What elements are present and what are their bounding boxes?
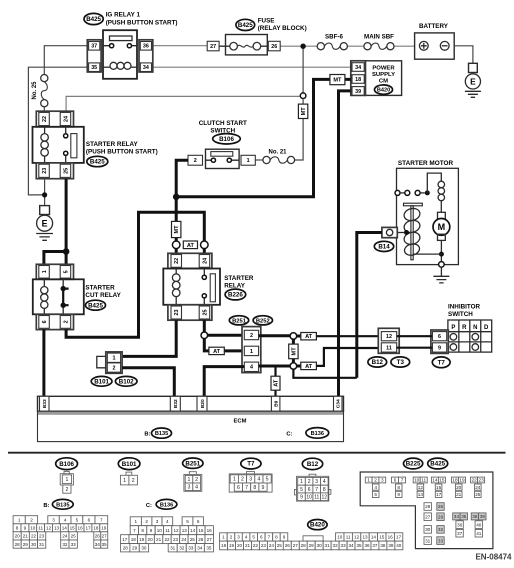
- oval T7: [432, 357, 450, 368]
- svg-text:31: 31: [170, 546, 176, 551]
- svg-text:7: 7: [268, 535, 271, 540]
- wire junction through MT to circle above pin22: [175, 197, 178, 241]
- wire circles down to relay pins 22/24: [176, 249, 204, 254]
- svg-text:33: 33: [71, 542, 77, 547]
- svg-text:B425: B425: [90, 159, 105, 166]
- pin 26 of fuse block: [268, 41, 280, 51]
- wire fuse No.25 to starter relay pin22: [43, 107, 45, 111]
- connector B12 pinout: [294, 474, 331, 501]
- svg-text:B101: B101: [94, 378, 109, 385]
- svg-text:20: 20: [456, 485, 462, 490]
- ground E (battery): [465, 63, 481, 97]
- svg-text:3: 3: [315, 479, 318, 485]
- node case terminal circle: [439, 262, 445, 268]
- svg-text:24: 24: [475, 485, 481, 490]
- svg-text:8: 8: [141, 528, 144, 533]
- wire circle down through AT to B251 pin1: [204, 339, 244, 351]
- svg-text:41: 41: [476, 531, 482, 536]
- svg-text:24: 24: [181, 537, 187, 542]
- pin bracket 23/25 of starter relay PBS: [36, 163, 73, 179]
- wire power CM pin18 via MT to clutch junction: [176, 79, 351, 196]
- label AT right of lower circle: [297, 365, 301, 368]
- svg-text:25: 25: [190, 537, 196, 542]
- oval B251 (pinout): [183, 458, 203, 468]
- svg-text:38: 38: [380, 543, 386, 548]
- svg-text:B226: B226: [228, 292, 243, 299]
- svg-text:25: 25: [63, 168, 69, 174]
- svg-text:P: P: [451, 325, 455, 331]
- svg-text:28: 28: [123, 546, 129, 551]
- relay box starter relay B226: [163, 269, 220, 305]
- svg-text:8: 8: [323, 487, 326, 493]
- svg-text:2: 2: [241, 477, 244, 483]
- svg-text:E: E: [42, 219, 48, 229]
- ECM pin row: [38, 396, 344, 411]
- fuse SBF-6: [317, 34, 347, 50]
- svg-text:34: 34: [348, 543, 354, 548]
- svg-text:T7: T7: [438, 359, 446, 366]
- svg-text:5: 5: [266, 477, 269, 483]
- svg-text:30: 30: [425, 527, 431, 532]
- connector B101/B102: [97, 352, 122, 373]
- svg-text:MT: MT: [301, 107, 307, 116]
- svg-text:20: 20: [15, 534, 21, 539]
- svg-text:39: 39: [355, 89, 361, 95]
- svg-text:B225: B225: [406, 461, 421, 468]
- wire solenoid bottom to motor negative: [412, 253, 441, 255]
- svg-text:2: 2: [195, 477, 198, 483]
- svg-text:39: 39: [388, 543, 394, 548]
- wire IG relay pin36 to fuse block pin27: [153, 45, 207, 47]
- pin bracket 22/24 of starter relay B226: [168, 253, 212, 268]
- svg-text:C34: C34: [336, 399, 342, 408]
- connector B136 pinout grid: [121, 517, 214, 552]
- svg-text:2: 2: [145, 519, 148, 524]
- svg-text:7: 7: [245, 485, 248, 491]
- svg-text:33: 33: [438, 538, 444, 543]
- svg-text:4: 4: [250, 365, 253, 371]
- svg-text:26: 26: [285, 543, 291, 548]
- svg-text:BATTERY: BATTERY: [419, 23, 449, 30]
- svg-text:B135: B135: [155, 431, 168, 437]
- solenoid plunger T-bar: [404, 203, 423, 206]
- svg-text:37: 37: [91, 44, 97, 50]
- wire IG relay pin35 to left ground run: [28, 67, 87, 195]
- ground (starter motor): [433, 267, 449, 283]
- svg-text:12: 12: [322, 494, 328, 500]
- wire clutch switch pin1 to fuse No.21: [255, 159, 262, 161]
- oval T3: [391, 357, 410, 367]
- svg-text:20: 20: [237, 543, 243, 548]
- svg-text:31: 31: [325, 543, 331, 548]
- wire lower AT jog up to connector 11: [316, 348, 381, 366]
- ovals B225 B425 (pinout): [404, 458, 423, 469]
- wire power CM pin39 down to ECM C34: [339, 91, 351, 396]
- svg-text:22: 22: [471, 478, 477, 483]
- connector B251/B252 cells: [242, 327, 261, 373]
- node B14 tap dot on solenoid: [404, 230, 409, 235]
- node circle (upper, right of B251): [290, 333, 297, 340]
- wire cut relay pin6 to ECM B33: [42, 329, 45, 396]
- svg-text:B136: B136: [160, 502, 173, 508]
- svg-text:13: 13: [362, 535, 368, 540]
- svg-text:5: 5: [76, 518, 79, 523]
- svg-text:35: 35: [206, 546, 212, 551]
- svg-text:1: 1: [188, 477, 191, 483]
- connector B135 pinout grid: [13, 516, 108, 549]
- svg-text:B101: B101: [122, 461, 137, 468]
- svg-text:12: 12: [386, 334, 392, 340]
- svg-text:40: 40: [396, 543, 402, 548]
- svg-text:38: 38: [472, 514, 478, 519]
- svg-text:3: 3: [188, 484, 191, 490]
- svg-text:34: 34: [197, 546, 203, 551]
- svg-text:9: 9: [283, 535, 286, 540]
- svg-text:2: 2: [250, 333, 253, 339]
- svg-text:7: 7: [100, 518, 103, 523]
- svg-text:9: 9: [262, 485, 265, 491]
- oval T7 (pinout): [241, 458, 261, 469]
- svg-text:16: 16: [436, 485, 442, 490]
- svg-text:19: 19: [459, 478, 465, 483]
- svg-text:13: 13: [182, 528, 188, 533]
- svg-text:(RELAY BLOCK): (RELAY BLOCK): [258, 25, 307, 32]
- svg-text:B425: B425: [238, 22, 253, 29]
- svg-text:34: 34: [454, 514, 460, 519]
- power supply CM B420: [365, 61, 401, 96]
- svg-text:23: 23: [478, 478, 484, 483]
- svg-text:24: 24: [269, 543, 275, 548]
- svg-text:25: 25: [277, 543, 283, 548]
- svg-text:3: 3: [237, 535, 240, 540]
- svg-text:1: 1: [233, 477, 236, 483]
- connector B101 pinout: [120, 472, 137, 485]
- fuse No.21: [263, 156, 295, 163]
- svg-text:15: 15: [439, 478, 445, 483]
- svg-text:13: 13: [418, 492, 424, 497]
- svg-text:1: 1: [250, 349, 253, 355]
- pin 2 of clutch switch: [188, 155, 203, 165]
- coil of IG relay 1: [103, 62, 137, 69]
- svg-text:FUSE: FUSE: [258, 17, 275, 24]
- fuse (relay block) B425 label: [236, 17, 307, 32]
- svg-text:33: 33: [341, 543, 347, 548]
- svg-text:2: 2: [30, 518, 33, 523]
- svg-text:B251: B251: [185, 460, 200, 467]
- wire 12 to 6: [397, 335, 433, 337]
- svg-text:22: 22: [164, 537, 170, 542]
- svg-text:29: 29: [309, 543, 315, 548]
- svg-text:4: 4: [323, 479, 326, 485]
- svg-text:1: 1: [123, 478, 126, 484]
- svg-text:B420: B420: [377, 88, 390, 94]
- svg-text:B252: B252: [256, 318, 270, 324]
- svg-text:1: 1: [222, 535, 225, 540]
- svg-text:STARTER: STARTER: [85, 284, 115, 291]
- wire upper AT to connector 12: [316, 335, 381, 337]
- svg-text:6: 6: [42, 320, 48, 323]
- svg-text:AT: AT: [213, 349, 221, 355]
- svg-text:4: 4: [374, 485, 377, 490]
- label MT (connector on MT line): [298, 104, 307, 118]
- label AT left of B251 pin1: [209, 347, 224, 355]
- svg-text:22: 22: [31, 534, 37, 539]
- battery: [415, 23, 455, 59]
- wire MT circle to fuse No.21: [302, 99, 304, 105]
- svg-text:11: 11: [421, 478, 426, 483]
- svg-text:12: 12: [46, 526, 52, 531]
- svg-text:6: 6: [237, 485, 240, 491]
- svg-text:22: 22: [174, 258, 180, 264]
- svg-text:SBF-6: SBF-6: [325, 34, 343, 41]
- node MT inline connector circle: [300, 93, 306, 99]
- svg-text:16: 16: [207, 528, 213, 533]
- svg-text:STARTER MOTOR: STARTER MOTOR: [398, 160, 454, 167]
- svg-text:8: 8: [253, 485, 256, 491]
- svg-text:23: 23: [39, 534, 45, 539]
- svg-text:2: 2: [230, 535, 233, 540]
- svg-text:B425: B425: [430, 461, 445, 468]
- connector B225/B425 pinout outline: [360, 472, 493, 549]
- pin B33: [40, 396, 50, 411]
- label B: B135 (pinout): [43, 499, 73, 509]
- svg-text:17: 17: [396, 535, 402, 540]
- svg-text:5: 5: [252, 535, 255, 540]
- node junction on main bus: [300, 44, 305, 49]
- svg-text:No. 25: No. 25: [32, 81, 38, 100]
- oval B420 (pinout): [308, 520, 327, 530]
- svg-text:B251: B251: [232, 318, 247, 324]
- svg-text:CLUTCH START: CLUTCH START: [199, 120, 247, 127]
- svg-text:B9: B9: [274, 400, 280, 407]
- svg-text:28: 28: [301, 543, 307, 548]
- svg-text:5: 5: [374, 492, 377, 497]
- svg-text:12: 12: [418, 485, 424, 490]
- node clutch/pin18 junction: [173, 194, 180, 201]
- svg-text:37: 37: [457, 531, 463, 536]
- pin B32: [170, 396, 180, 411]
- node circle (lower, right of B251): [290, 363, 297, 370]
- svg-text:9: 9: [300, 494, 303, 500]
- svg-text:19: 19: [101, 526, 107, 531]
- wire 11 to 9: [397, 347, 433, 349]
- svg-text:1: 1: [367, 478, 370, 483]
- svg-text:8: 8: [275, 535, 278, 540]
- svg-text:32: 32: [179, 546, 185, 551]
- oval B106 (pinout): [56, 458, 78, 470]
- fuse No. 25: [41, 75, 48, 107]
- wire clutch pin2 to junction: [176, 160, 188, 197]
- svg-text:AT: AT: [187, 243, 195, 249]
- op-amp none; component IG RELAY 1 (PUSH BUTTON START) B425: [84, 12, 178, 27]
- wire AT branch down to ECM B9: [274, 366, 276, 396]
- svg-text:1: 1: [66, 477, 69, 483]
- svg-text:2: 2: [374, 478, 377, 483]
- svg-text:35: 35: [91, 65, 97, 71]
- svg-text:23: 23: [261, 543, 267, 548]
- svg-text:24: 24: [62, 534, 68, 539]
- svg-text:6: 6: [260, 535, 263, 540]
- svg-text:14: 14: [190, 528, 196, 533]
- svg-text:10: 10: [30, 526, 36, 531]
- svg-text:9: 9: [438, 345, 441, 351]
- svg-text:24: 24: [202, 258, 208, 264]
- svg-text:B:: B:: [144, 432, 150, 438]
- svg-text:STARTER RELAY: STARTER RELAY: [86, 141, 139, 148]
- svg-text:10: 10: [306, 494, 312, 500]
- svg-text:6: 6: [308, 487, 311, 493]
- svg-text:8: 8: [397, 485, 400, 490]
- svg-text:B:: B:: [43, 503, 49, 509]
- fuse MAIN SBF: [364, 34, 394, 50]
- label AT right of upper circle: [297, 335, 301, 338]
- inhibitor switch grid: [448, 320, 492, 352]
- svg-text:25: 25: [475, 492, 481, 497]
- label AT between circles: [183, 241, 197, 249]
- svg-text:19: 19: [139, 537, 145, 542]
- wire dot up over to pull-in coil: [427, 173, 441, 193]
- svg-text:B33: B33: [42, 399, 48, 408]
- pin column 36/34 of IG relay 1: [139, 40, 153, 72]
- svg-text:30: 30: [141, 546, 147, 551]
- node junction above starter cut relay: [63, 248, 70, 255]
- svg-text:29: 29: [132, 546, 138, 551]
- svg-text:37: 37: [372, 543, 378, 548]
- svg-text:4: 4: [257, 477, 260, 483]
- svg-text:32: 32: [438, 527, 444, 532]
- svg-text:B32: B32: [173, 399, 179, 408]
- connector B420 pinout: [220, 533, 403, 550]
- svg-text:D: D: [484, 325, 489, 331]
- svg-text:36: 36: [364, 543, 370, 548]
- svg-text:21: 21: [156, 537, 162, 542]
- oval B14: [374, 241, 393, 251]
- svg-text:11: 11: [386, 345, 392, 351]
- wire B251 pin4 right to lower circle: [259, 365, 291, 368]
- svg-text:CM: CM: [379, 78, 388, 84]
- svg-text:9: 9: [150, 528, 153, 533]
- node circle above B251: [201, 332, 208, 339]
- wire relay pin23 to B101 pin1: [122, 320, 176, 356]
- svg-text:B420: B420: [310, 522, 325, 529]
- svg-text:33: 33: [188, 546, 194, 551]
- svg-text:7: 7: [401, 478, 404, 483]
- svg-text:ECM: ECM: [234, 418, 247, 424]
- svg-text:STARTER: STARTER: [224, 275, 254, 282]
- svg-text:4: 4: [245, 535, 248, 540]
- svg-text:21: 21: [23, 534, 29, 539]
- wire fuse block pin26 to battery plus: [280, 45, 317, 47]
- svg-text:3: 3: [156, 519, 159, 524]
- svg-text:30: 30: [31, 542, 37, 547]
- svg-text:14: 14: [432, 478, 438, 483]
- wire IG relay pin24 run to MT connector circle: [66, 96, 300, 111]
- oval B101 (pinout): [118, 458, 140, 470]
- connector B14: [382, 227, 404, 237]
- svg-text:27: 27: [425, 514, 431, 519]
- svg-text:2: 2: [308, 479, 311, 485]
- svg-text:16: 16: [78, 526, 84, 531]
- wire junction to cut relay pins 1 and 5: [44, 252, 66, 265]
- wire pin25 thick down to starter cut relay: [65, 179, 68, 252]
- connector B106 pinout: [60, 472, 73, 494]
- svg-text:MT: MT: [333, 78, 342, 84]
- svg-text:C:: C:: [286, 432, 292, 438]
- solenoid plunger stem and spring: [403, 206, 421, 260]
- oval B102: [115, 376, 137, 386]
- svg-text:31: 31: [39, 542, 45, 547]
- svg-text:32: 32: [62, 542, 68, 547]
- svg-text:18: 18: [131, 537, 137, 542]
- connector 6/9 of inhibitor switch: [431, 330, 448, 353]
- svg-text:1: 1: [300, 479, 303, 485]
- svg-text:27: 27: [210, 44, 216, 50]
- svg-text:R: R: [462, 325, 467, 331]
- svg-text:AT: AT: [305, 364, 313, 370]
- svg-text:5: 5: [63, 270, 69, 273]
- svg-text:T7: T7: [247, 461, 255, 468]
- pin 27 of fuse block: [207, 41, 219, 51]
- svg-text:C:: C:: [146, 503, 152, 509]
- svg-text:3: 3: [52, 518, 55, 523]
- svg-text:5: 5: [300, 487, 303, 493]
- svg-text:34: 34: [95, 542, 101, 547]
- contact circles of magnetic switch: [395, 190, 430, 195]
- svg-text:B14: B14: [378, 244, 390, 251]
- ovals B251 B252: [229, 316, 248, 325]
- svg-text:1: 1: [42, 270, 48, 273]
- svg-text:36: 36: [143, 44, 149, 50]
- svg-text:B20: B20: [200, 399, 206, 408]
- svg-text:AT: AT: [274, 379, 280, 387]
- svg-text:17: 17: [85, 526, 91, 531]
- wire lower circle down to B14 line: [293, 369, 356, 378]
- wire B14 to pin39 net: [357, 233, 382, 378]
- pin column of power supply CM: [351, 61, 366, 96]
- svg-text:35: 35: [356, 543, 362, 548]
- svg-text:18: 18: [93, 526, 99, 531]
- svg-text:18: 18: [221, 543, 227, 548]
- pin bracket 23/25 of starter relay B226: [168, 305, 212, 320]
- svg-text:8: 8: [16, 526, 19, 531]
- node AT circle right (above pin24): [201, 241, 209, 249]
- connector T7 pinout: [229, 472, 272, 493]
- pin bracket 1/5 of starter cut relay: [36, 264, 73, 279]
- svg-text:35: 35: [461, 514, 467, 519]
- wire pin23 to ground E: [44, 179, 46, 206]
- label AT on B9 branch: [271, 376, 280, 390]
- svg-text:26: 26: [95, 534, 101, 539]
- svg-text:25: 25: [71, 534, 77, 539]
- svg-text:18: 18: [355, 77, 361, 83]
- starter relay B226 labels: [224, 275, 254, 300]
- clutch start switch B106: [199, 120, 247, 144]
- svg-text:14: 14: [371, 535, 377, 540]
- svg-text:27: 27: [102, 534, 108, 539]
- starter relay (push button start) B425 labels: [86, 141, 158, 167]
- coil (field) of starter motor: [438, 181, 445, 188]
- svg-text:20: 20: [148, 537, 154, 542]
- wire B251 pin4 left to ECM B20: [204, 367, 244, 397]
- starter motor box: [397, 160, 459, 265]
- wire B251 pin2 right to circle: [259, 334, 291, 337]
- svg-text:No. 21: No. 21: [268, 150, 287, 156]
- svg-text:12: 12: [354, 535, 360, 540]
- svg-text:2: 2: [112, 365, 115, 371]
- label C: B136 (pinout): [146, 499, 177, 509]
- svg-text:1: 1: [112, 356, 115, 362]
- svg-text:2: 2: [65, 487, 68, 493]
